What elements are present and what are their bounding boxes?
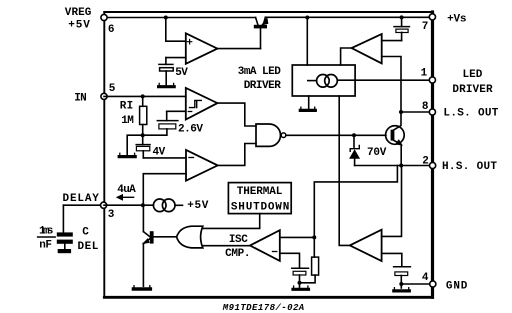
wire: mirror output to pin 1 [337,79,429,81]
svg-text:RI: RI [120,100,133,112]
svg-text:LED: LED [463,69,483,81]
wire: junction to ground [127,135,143,155]
svg-text:3mA LED: 3mA LED [238,66,281,78]
battery 5V reference [159,58,173,85]
pin 1 [429,77,435,83]
svg-text:5V: 5V [175,67,188,79]
wire: pin 2 net [355,165,430,167]
wire: isc comparator output to or gate input 2 [202,245,250,247]
svg-text:8: 8 [422,101,429,113]
wire: U8 - input to battery [382,253,402,266]
wire: pin 8 connection [401,111,429,113]
wire: U7 - input feedback from pin 8 net [382,57,401,113]
svg-text:L.S. OUT: L.S. OUT [443,107,498,119]
wire: VREG rail from pin 6 to pass transistor [104,17,256,19]
comparator U6 (short circuit comparator, output to left) [250,230,280,261]
svg-text:IN: IN [74,93,86,105]
pin 2 [430,162,436,168]
svg-text:4: 4 [422,272,429,284]
amplifier U8 (h.s. driver, output to left) [350,230,382,261]
wire: junction to 2.6V battery bottom [143,129,167,135]
node: isc sense junction [312,235,316,239]
ground (isc filter) [293,283,309,290]
wire: U6 - input to filter [280,253,300,267]
wire: U1 + input from rail [166,18,186,42]
node: R1 bottom junction [141,133,145,137]
node: rail junction to LED driver box [305,16,309,20]
svg-text:1M: 1M [121,115,134,127]
wire: U3 output to nand input 2 [218,144,256,166]
wire: battery to U7 + input [382,40,402,42]
wire: 4V to comparator - input [143,157,186,159]
ground (reference, at pin 4) [394,284,410,291]
current source I1 4uA [153,199,182,212]
wire: rail to mirror box [306,18,308,66]
label 1ms/nF [38,226,56,252]
svg-text:1ms: 1ms [39,226,53,238]
node: input divider top [141,94,145,98]
node: battery to pin 4 [399,282,403,286]
svg-text:1: 1 [421,68,428,80]
battery Vref (top right) [394,17,409,40]
wire: mirror box to ground [308,96,310,108]
transistor Q2 (delay discharge) [143,231,177,286]
svg-text:7: 7 [422,21,429,33]
wire: pin 5 to schmitt input [104,95,186,97]
diode Z1 70V clamp [350,135,359,165]
comparator U3 (delay comparator) [186,150,218,181]
wire: nand output to Q1 base [286,134,386,136]
wire: U2 output to nand input 1 [217,103,256,126]
wire: U6 + input from H.S. sense [280,236,315,238]
IC package outline [104,12,432,297]
op-amp U1 (voltage regulator error amp) [186,33,218,64]
wire: thermal shutdown to or gate input 1 [203,214,260,229]
wire: to pin 4 [401,283,429,285]
pin 5 [101,93,107,99]
battery 2.6V reference [157,111,178,129]
svg-text:SHUTDOWN: SHUTDOWN [231,202,289,214]
svg-text:+5V: +5V [187,200,209,212]
capacitor C DEL (external) [57,232,73,253]
svg-text:2: 2 [422,156,429,168]
wire: 2.6V to schmitt - input [167,110,186,112]
wire: external delay wire [63,204,100,206]
node: rail junction to error amp [164,16,168,20]
wire: U1 - input from 5V reference [166,57,186,59]
svg-text:H.S. OUT: H.S. OUT [442,161,497,173]
svg-text:GND: GND [446,280,468,292]
ground (Q2 emitter) [133,286,150,289]
node: nand output to zener [352,133,356,137]
pin 7 [429,14,435,20]
transistor Q3 (series pass PNP) [254,17,268,48]
ground (mirror box) [300,107,315,110]
label 4uA with arrow [117,184,136,200]
wire: delay node to U3 + input [143,174,186,206]
wire: pin 3 to current source [104,204,153,206]
nand gate U4 [256,124,286,146]
svg-text:DELAY: DELAY [63,193,100,205]
svg-text:VREG: VREG [65,7,92,19]
resistor R2 [300,237,319,282]
wire: U8 + input from pin 2 net [382,166,402,237]
svg-text:CMP.: CMP. [225,248,250,260]
svg-text:2.6V: 2.6V [178,123,203,135]
svg-text:THERMAL: THERMAL [237,186,283,198]
svg-text:4uA: 4uA [117,184,136,196]
box 3mA led driver current mirror [292,65,355,96]
ground (input divider) [119,153,135,156]
svg-text:DRIVER: DRIVER [244,80,281,92]
svg-text:C: C [82,226,89,238]
svg-text:5: 5 [109,83,116,95]
wire: +Vs rail from pass transistor to pin 7 [265,16,432,18]
transistor Q1 (output darlington) [386,112,405,166]
wire: U8 output up to mirror box bottom [339,96,350,245]
battery Vref (bottom right) [394,267,411,284]
wire: sense line from pin 2 net [314,166,397,238]
svg-text:M91TDE178/-02A: M91TDE178/-02A [222,303,304,313]
box thermal shutdown [228,183,291,214]
pin 4 [430,281,436,287]
resistor R1 1M [140,96,147,135]
node: collector to pin 8 [399,110,403,114]
wire: U7 output to mirror box top [341,48,352,65]
node: delay junction [141,203,145,207]
ground (5V reference) [159,83,175,86]
svg-text:70V: 70V [367,147,387,159]
pin 6 [101,14,107,20]
svg-text:4V: 4V [153,147,166,159]
battery 4V reference [136,135,150,158]
node: emitter to pin 2 [399,164,403,168]
svg-text:DRIVER: DRIVER [452,84,493,96]
capacitor C1 (isc filter) [292,268,309,283]
comparator U2 (input schmitt trigger) [186,88,218,120]
amplifier U7 (led driver amp, output to left) [352,34,382,63]
svg-text:3: 3 [108,209,115,221]
pin 8 [429,109,435,115]
svg-text:DEL: DEL [78,241,99,253]
svg-text:+5V: +5V [68,20,90,32]
or gate U5 (shutdown logic, output to left) [177,226,203,248]
pin 3 [101,202,107,208]
svg-text:+Vs: +Vs [447,14,466,26]
node: filter bottom junction [298,281,302,285]
wire: U1 output to Q3 base [217,48,260,50]
wire: delay junction down to Q2 collector [142,205,144,231]
svg-text:ISC: ISC [229,234,248,246]
svg-text:6: 6 [108,24,115,36]
svg-text:nF: nF [39,239,52,251]
node: rail junction to Vref battery [400,15,404,19]
